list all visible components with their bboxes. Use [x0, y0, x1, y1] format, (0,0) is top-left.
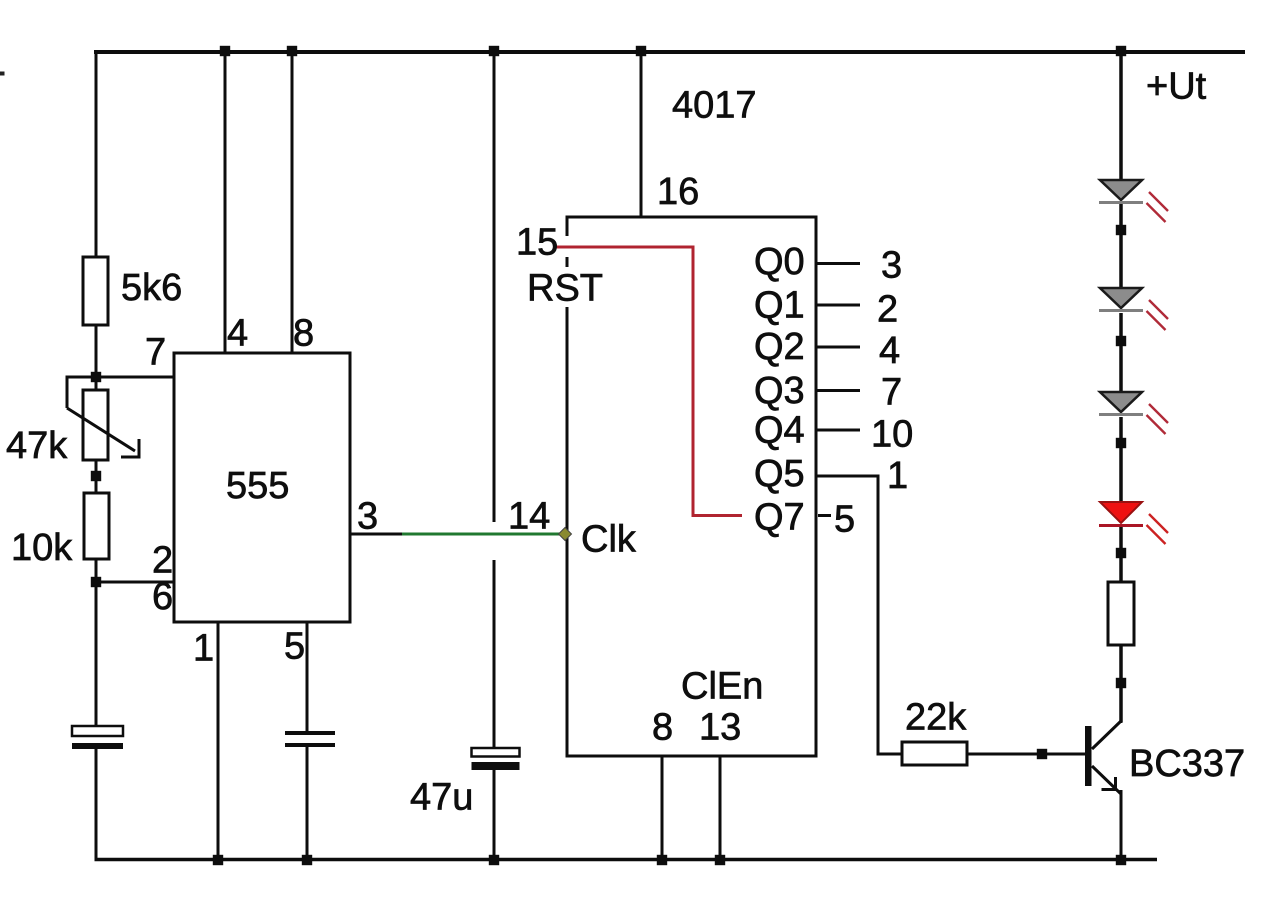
svg-text:ClEn: ClEn: [681, 666, 763, 708]
svg-text:4: 4: [227, 313, 248, 355]
svg-text:2: 2: [877, 289, 898, 331]
svg-text:47k: 47k: [6, 425, 68, 467]
svg-text:5: 5: [834, 499, 855, 541]
svg-text:8: 8: [293, 313, 314, 355]
svg-text:5: 5: [284, 626, 305, 668]
svg-text:3: 3: [357, 496, 378, 538]
svg-text:7: 7: [881, 372, 902, 414]
svg-text:13: 13: [699, 707, 741, 749]
svg-text:5k6: 5k6: [121, 267, 182, 309]
svg-text:16: 16: [657, 171, 699, 213]
svg-text:10k: 10k: [11, 527, 73, 569]
svg-text:BC337: BC337: [1129, 743, 1245, 785]
svg-text:14: 14: [508, 496, 550, 538]
svg-text:3: 3: [881, 245, 902, 287]
svg-text:1: 1: [193, 628, 214, 670]
svg-text:555: 555: [226, 465, 289, 507]
svg-text:Q2: Q2: [754, 326, 805, 368]
svg-text:8: 8: [652, 707, 673, 749]
svg-text:Q7: Q7: [754, 497, 805, 539]
svg-text:RST: RST: [527, 268, 603, 310]
svg-text:10: 10: [871, 414, 913, 456]
svg-text:15: 15: [516, 222, 558, 264]
svg-text:6: 6: [152, 576, 173, 618]
svg-text:Q0: Q0: [754, 241, 805, 283]
svg-text:+Ut: +Ut: [1146, 66, 1207, 108]
svg-text:Q4: Q4: [754, 410, 805, 452]
svg-text:Clk: Clk: [581, 519, 637, 561]
svg-text:4017: 4017: [672, 85, 757, 127]
svg-text:47u: 47u: [410, 777, 473, 819]
svg-text:1: 1: [887, 455, 908, 497]
svg-text:7: 7: [145, 332, 166, 374]
svg-text:4: 4: [879, 330, 900, 372]
svg-text:Q1: Q1: [754, 285, 805, 327]
svg-text:Q5: Q5: [754, 453, 805, 495]
svg-text:22k: 22k: [905, 697, 967, 739]
svg-text:Q3: Q3: [754, 370, 805, 412]
